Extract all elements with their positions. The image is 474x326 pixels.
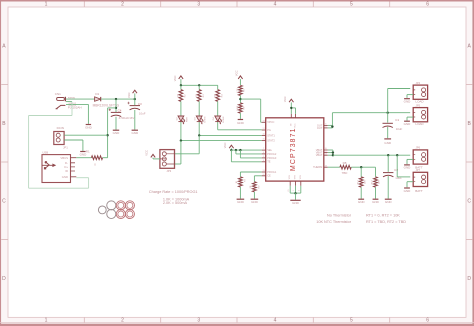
note thermistor [316,214,406,225]
wire to PROG2 pin [236,150,262,154]
svg-text:10K: 10K [379,180,381,184]
wire IC PROG1 to R7 [240,172,261,177]
note charge rate [149,190,198,205]
svg-text:C1: C1 [395,118,399,122]
svg-text:2K: 2K [250,185,252,188]
svg-text:THERM: THERM [313,165,322,169]
wire BATT to JP7 [397,155,410,177]
wire R8 to RT2 [351,166,375,168]
junction dot U1 VSS [294,192,296,194]
ground under JP7 [404,188,423,193]
junction dot D3/JP3 [198,134,200,136]
junction dot BATT branch [396,154,398,156]
svg-text:PROG2: PROG2 [267,152,277,156]
svg-text:C: C [467,199,471,205]
wire jack tip to diode [66,98,95,100]
resistor R2 [178,90,187,102]
pad P3 [116,209,125,218]
svg-text:VCC: VCC [144,150,148,156]
supply VCC arrow SEL [223,143,233,151]
capacitor C2 [383,155,402,180]
wire JP4 gnd pin [407,95,413,98]
wire R7 to ground [239,187,241,199]
ground under divider [237,120,245,126]
svg-text:GND: GND [358,200,366,204]
ground under R9 [251,199,259,204]
wire U1 VSS tie [290,186,301,193]
wire THERM to R8 [328,166,340,168]
wire down to RT2 [375,167,377,177]
svg-text:Charge Rate = 1000/PROG1: Charge Rate = 1000/PROG1 [149,190,198,194]
svg-text:VCC: VCC [295,123,297,128]
wire C4 to ground [115,117,117,130]
supply VCC arrow at input rail [127,90,137,99]
svg-text:D1: D1 [95,92,99,96]
svg-text:D4: D4 [213,117,215,121]
wire R2 to D2 [180,101,182,115]
wire R3 to D3 [198,101,200,115]
wire VBUS to R1 [76,157,91,159]
wire JP6 gnd pin [407,159,413,164]
svg-text:470: 470 [196,93,198,97]
wire OUT pins tie [328,125,333,128]
svg-text:GND: GND [372,200,380,204]
resistor RT2 [372,177,381,187]
svg-text:GND: GND [237,121,245,125]
junction dot THERM [360,166,362,168]
svg-text:R3: R3 [203,94,205,98]
junction dot SEL c [239,149,241,151]
svg-text:D: D [467,276,471,282]
svg-text:VCC: VCC [283,96,287,102]
pad P1 [116,201,125,210]
junction dot DC branch [115,107,117,109]
svg-text:D: D [2,276,6,282]
resistor R7 [236,177,247,187]
wire to TE pin [231,150,261,162]
svg-text:21: 21 [288,189,290,192]
wire R4 to D4 [217,101,219,115]
svg-text:CN1: CN1 [55,92,61,96]
svg-text:VSS: VSS [295,175,297,180]
svg-text:PJ-102AH: PJ-102AH [68,105,82,109]
wire C2 to ground [387,176,389,199]
svg-text:10K: 10K [364,180,366,184]
junction dot U1 VCC [290,107,292,109]
wire VBAT pins tie [328,150,333,155]
U1 pin labels [267,120,323,191]
svg-text:TE: TE [267,160,271,164]
wire rail to resistor R4 [217,85,219,89]
svg-text:VBAT: VBAT [316,153,323,157]
resistor R8 [340,161,351,175]
wire DCIN pin1 to node [64,134,107,136]
svg-text:2: 2 [299,189,301,191]
wire to PROG3 pin [240,150,261,158]
resistor R6 divider bottom [237,103,246,113]
svg-text:6: 6 [426,318,429,324]
junction dot DCIN pin1 [106,134,108,136]
svg-text:13: 13 [263,170,265,172]
svg-text:GND: GND [85,126,93,130]
junction dot VBAT b [332,154,334,156]
svg-text:TBD: TBD [342,171,348,175]
svg-text:JP6: JP6 [416,146,421,150]
junction dot OUT [331,125,333,127]
svg-text:4: 4 [274,318,277,324]
svg-text:R8: R8 [343,161,347,165]
pad P2 [125,201,134,210]
wire R5 to node [239,96,241,103]
svg-text:6: 6 [263,152,264,154]
frame row letters A-D [2,44,471,283]
connector JP7 BATT [413,168,427,186]
svg-text:BATT: BATT [415,189,423,193]
svg-text:LOAD: LOAD [415,99,424,103]
wire RT1 to ground [360,187,362,198]
svg-text:14: 14 [325,153,327,155]
resistor R1 [86,150,103,167]
svg-text:4: 4 [274,2,277,8]
resistor RT1 [357,177,366,187]
wire DCIN pin2 to ground [64,140,83,151]
wire BATT rail [333,154,410,156]
svg-text:2.7K: 2.7K [237,88,239,93]
wire OUT rail [332,113,410,126]
wire rail to resistor R3 [198,85,200,89]
svg-text:DCIN: DCIN [57,126,64,130]
wire C4 drop [115,99,117,112]
svg-text:GND: GND [131,131,139,135]
svg-text:GND: GND [404,99,412,103]
wire OUT to JP4 [388,89,411,113]
U1 pin stubs [262,114,328,186]
connector JP3 [160,150,175,173]
supply VCC arrow at U1 [283,96,296,113]
ground under RT2 [372,199,380,204]
svg-text:C4: C4 [118,108,122,112]
svg-text:1K: 1K [236,180,238,183]
svg-text:VCC: VCC [223,143,227,149]
svg-text:GND: GND [385,200,393,204]
ground under C1 [384,139,392,145]
svg-text:C3: C3 [138,102,142,106]
ground under RT1 [358,199,366,204]
junction dot BATT C2 [387,154,389,156]
svg-text:9: 9 [325,126,326,128]
wire LED D4 to IC pin STAT2 [218,122,262,130]
svg-text:470: 470 [178,93,180,97]
wire jack switch stub [66,101,72,103]
svg-text:1: 1 [293,189,295,191]
wire R6 to ground [239,113,241,119]
svg-text:2: 2 [121,2,124,8]
svg-text:19: 19 [325,165,327,167]
wire R9 to ground [253,192,255,199]
ground under JP4 [404,99,425,104]
svg-text:5: 5 [350,318,353,324]
supply VCC arrow at JP3 [144,150,160,159]
svg-text:GND: GND [237,200,245,204]
junction dot divider tap [239,98,241,100]
svg-text:C2: C2 [394,168,398,172]
wire jack sleeve to ground [66,104,88,124]
svg-text:VCC: VCC [173,76,177,82]
svg-text:USB: USB [42,150,48,154]
svg-text:3: 3 [197,318,200,324]
wire D2 node to JP3 pin3 [175,141,181,164]
wire D3 node to JP3 pin1 [175,135,200,153]
svg-text:LOAD: LOAD [415,122,424,126]
svg-text:3: 3 [197,2,200,8]
svg-text:10K NTC Thermistor: 10K NTC Thermistor [316,220,351,224]
svg-text:VSS: VSS [289,175,291,180]
svg-text:0: 0 [94,163,96,167]
connector JP6 BATT [413,146,427,164]
svg-text:SEL: SEL [267,148,272,152]
svg-text:JP5: JP5 [416,103,421,107]
junction dot VBAT a [332,151,334,153]
connector JP4 LOAD [413,81,427,99]
svg-text:5: 5 [263,156,264,158]
U1 pin numbers [263,120,327,175]
svg-text:1: 1 [45,2,48,8]
svg-text:VSS: VSS [300,175,302,180]
wire usb shield loop [29,102,89,188]
svg-text:VCC: VCC [235,70,239,76]
svg-text:16: 16 [263,134,265,136]
svg-text:IN: IN [290,123,292,126]
capacitor C4 [109,108,135,120]
ground under JP5 [404,121,425,126]
connector CN1 barrel jack [55,92,82,109]
LED D4 [213,116,225,125]
ground under U1 [290,200,300,205]
ground under R7 [237,199,245,204]
svg-text:RT1: RT1 [357,179,359,184]
svg-text:DONE: DONE [223,116,225,123]
svg-text:GND: GND [62,175,68,179]
wire branch to DCIN/USB vertical [108,108,116,158]
svg-text:C: C [2,199,6,205]
svg-text:12: 12 [263,174,265,176]
wire VCC to SEL pin [231,149,261,151]
wire LED D3 to IC pin STAT1 [199,122,262,135]
svg-text:RT1 = 0, RT2 = 10K: RT1 = 0, RT2 = 10K [366,214,400,218]
svg-text:R1: R1 [86,150,90,154]
resistor R5 divider top [237,85,246,95]
svg-text:RT1 = TBD, RT2 = TBD: RT1 = TBD, RT2 = TBD [366,220,406,224]
svg-text:100K: 100K [237,105,239,111]
svg-text:GND: GND [292,201,300,205]
wire C1 to ground [387,127,389,138]
junction dot SEL a [230,149,232,151]
ground under JP6 [404,165,423,170]
svg-text:10uF: 10uF [139,112,146,116]
svg-text:2: 2 [121,318,124,324]
wire LED supply rail [181,84,218,86]
svg-text:PROG3: PROG3 [267,156,277,160]
svg-text:R7: R7 [244,178,246,182]
resistor R4 [214,90,223,102]
svg-text:470: 470 [214,93,216,97]
svg-text:GND: GND [384,141,392,145]
svg-text:D3: D3 [195,117,197,121]
svg-text:15: 15 [263,139,265,141]
wire LED D2 to IC pin PG [181,122,262,141]
wire node to RT1 [360,167,362,177]
supply VCC arrow divider [235,70,243,85]
svg-text:7: 7 [263,148,264,150]
svg-text:4700uF/16V: 4700uF/16V [119,116,135,120]
svg-text:10uF: 10uF [396,127,403,131]
wire R1 to node [103,157,108,159]
svg-text:D2: D2 [176,117,178,121]
svg-text:JP1: JP1 [63,146,68,150]
svg-text:18: 18 [263,120,265,122]
svg-text:R2: R2 [185,94,187,98]
resistor R3 [196,90,205,102]
svg-text:JP3: JP3 [166,169,171,173]
svg-text:17: 17 [263,128,265,130]
svg-text:VBUS: VBUS [60,156,68,160]
svg-text:1: 1 [45,318,48,324]
svg-text:PROG1: PROG1 [267,170,277,174]
svg-text:R4: R4 [222,94,224,98]
capacitor C1 [383,113,403,132]
svg-text:2.0K = 500mA: 2.0K = 500mA [163,201,188,205]
connector X1 USB [42,150,77,182]
wire U1 VSS to ground [295,193,297,200]
svg-text:GND: GND [404,122,412,126]
svg-text:CHRG: CHRG [205,116,207,123]
supply VCC arrow LED rail [173,76,183,86]
svg-text:STAT2: STAT2 [267,139,275,143]
svg-text:VCC: VCC [127,92,131,98]
LED D2 [176,116,188,125]
mounting hole H2 [107,201,116,210]
LED D3 [195,116,207,125]
svg-text:OUT: OUT [317,126,323,130]
svg-text:PG: PG [267,128,271,132]
connector JP5 LOAD [413,103,427,121]
svg-text:MCP73871: MCP73871 [290,127,297,171]
junction node VCC tap [134,98,136,100]
wire IC PROG3 to R9 [254,176,261,182]
wire diode cathode rail to VCC node [101,98,135,100]
resistor R9 [250,182,261,192]
mounting hole H3 [107,209,116,218]
svg-text:GND: GND [251,200,259,204]
svg-text:CE: CE [267,174,271,178]
svg-text:GND: GND [113,131,121,135]
svg-text:GND: GND [404,166,412,170]
svg-text:PWR: PWR [186,117,188,123]
capacitor C3 [127,102,145,116]
wire rail to resistor R2 [180,85,182,89]
op-amp U1 MCP73871 body [266,118,324,181]
junction dot OUT branch [387,112,389,114]
diode D1 [93,92,120,108]
mounting hole H1 [98,206,106,214]
connector JP1 DCIN [54,126,68,150]
ground under C3 [131,130,139,135]
ground under C4 [113,130,121,135]
svg-text:RT2: RT2 [372,179,374,184]
ground under C2 [385,199,393,204]
svg-text:No Thermistor: No Thermistor [327,214,352,218]
wire JP5 gnd pin [407,117,413,120]
svg-text:R6: R6 [243,106,245,110]
svg-text:GND: GND [404,189,412,193]
wire JP7 gnd pin [407,182,413,188]
svg-text:VPCC: VPCC [267,120,274,124]
wire RT2 to ground [375,187,377,198]
svg-text:STAT1: STAT1 [267,133,275,137]
junction dot SEL b [235,149,237,151]
junction dot D2/JP3 [180,139,182,141]
wire C3 to ground [134,110,136,130]
svg-text:ID: ID [65,169,68,173]
svg-text:5: 5 [350,2,353,8]
junction dot LED rail 1 [180,84,182,86]
junction dot LED rail 2 [198,84,200,86]
ground under DCIN [80,152,88,157]
svg-text:6: 6 [426,2,429,8]
pad P4 [125,209,134,218]
wire VCC node to C3 [134,99,136,105]
svg-text:JP4: JP4 [416,81,421,85]
wire tap to IC pin VPCC [240,99,261,122]
svg-text:JP7: JP7 [416,168,421,172]
svg-text:R9: R9 [258,185,260,189]
ground under jack [85,125,93,130]
junction node C4 tap [115,98,117,100]
svg-text:R5: R5 [243,88,245,92]
svg-text:4: 4 [263,160,264,162]
